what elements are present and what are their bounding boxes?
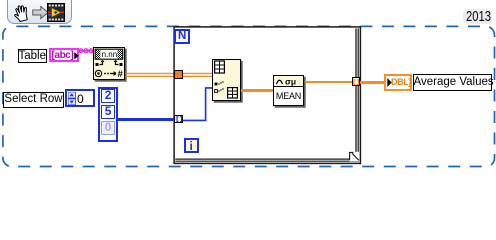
Index Array node (212, 59, 241, 101)
string 2D-array control terminal [abc] (Table) (49, 48, 80, 63)
indexing output tunnel (352, 77, 360, 85)
terminal arrow (74, 52, 79, 60)
in/out hook markers (96, 61, 123, 66)
MEAN node (273, 75, 304, 107)
loop count terminal N (174, 29, 190, 44)
orange 1D wire tunnel to indicator (360, 81, 385, 84)
Table label (18, 49, 48, 63)
Select Row label (3, 92, 64, 108)
thin orange scalar wire MEAN to output tunnel (305, 81, 353, 83)
n.nn hatched box (95, 49, 123, 59)
blue wire inside loop to Index Array (0, 0, 496, 169)
blue 1D-int wire array constant to loop (118, 118, 175, 121)
svg-text:σμ: σμ (285, 76, 296, 86)
for loop frame (0, 0, 496, 169)
array constant index display (65, 89, 95, 107)
VI run icon (filmstrip) (47, 3, 65, 22)
hand tool icon (11, 3, 31, 23)
positioning tool arrow icon (32, 5, 49, 20)
year label 2013 (463, 9, 492, 24)
Fract/Exp String To Number node (93, 47, 125, 80)
bottom row: circle, dots, arrow, # (95, 70, 101, 76)
index markers (215, 81, 224, 92)
pink string-array wire (coiled) (78, 46, 94, 56)
Average Values label (413, 74, 493, 91)
folded corner (349, 152, 359, 162)
orange 2D-array wire node to Index Array (0, 0, 496, 169)
2D array grid top-left (215, 61, 225, 73)
dashed diagram border (0, 0, 496, 169)
DBL array indicator terminal (384, 74, 412, 91)
small grid bottom-right (228, 88, 238, 98)
array constant elements 2,5,0 (98, 87, 118, 142)
orange 1D wire Index Array to MEAN (241, 89, 274, 92)
iteration terminal i (184, 138, 199, 153)
toolbar panel (7, 0, 72, 24)
orange non-indexing tunnel (174, 70, 183, 79)
blue indexing tunnel (174, 115, 182, 123)
